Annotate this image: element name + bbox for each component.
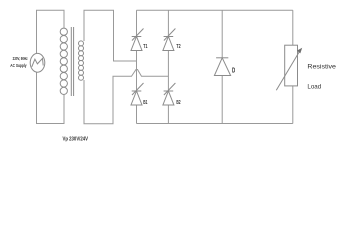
wire: freewheeling diode branch	[221, 10, 223, 58]
wire: branch 2 vertical	[167, 10, 169, 36]
transformer core	[71, 27, 73, 96]
transformer TR1 primary winding	[60, 28, 67, 94]
wire: AC loop top	[37, 10, 65, 53]
thyristor B1	[131, 83, 144, 105]
svg-text:B2: B2	[176, 100, 180, 106]
svg-text:230V, 50Hz: 230V, 50Hz	[13, 56, 28, 61]
svg-text:AC Supply: AC Supply	[10, 63, 26, 68]
label: 230V, 50Hz AC Supply	[10, 56, 28, 68]
diode D	[214, 58, 230, 76]
wire: branch 1 vertical	[136, 10, 138, 36]
svg-text:T1: T1	[143, 44, 147, 50]
svg-text:Vp 230V/24V: Vp 230V/24V	[63, 136, 89, 142]
label: Resistive Load	[307, 64, 336, 91]
wire: load branch	[292, 10, 294, 45]
transformer TR1 secondary winding	[79, 41, 84, 80]
thyristor T1	[131, 29, 144, 51]
resistive load R (rheostat)	[276, 45, 302, 90]
AC source V1	[30, 53, 45, 72]
wire: AC loop bottom	[37, 72, 65, 123]
svg-text:Resistive: Resistive	[307, 64, 336, 71]
svg-text:D: D	[232, 65, 235, 74]
thyristor B2	[163, 83, 176, 105]
wire: bridge bottom rail	[137, 123, 293, 125]
thyristor T2	[163, 29, 176, 51]
svg-text:B1: B1	[143, 100, 147, 106]
svg-text:T2: T2	[176, 44, 180, 50]
wire: bridge top rail	[137, 9, 293, 11]
wire: secondary bottom to node B with hop	[84, 70, 168, 124]
svg-text:Load: Load	[307, 84, 321, 91]
wire: secondary top to bridge node A	[84, 10, 137, 61]
